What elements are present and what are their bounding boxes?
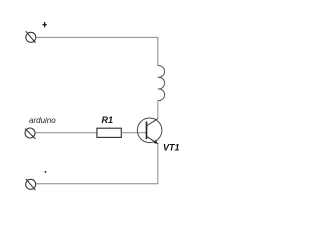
label + [42,22,46,27]
terminal X3 (- supply) [26,179,36,190]
wire top rail [36,37,158,65]
inductor L1 [158,66,165,101]
transistor VT1 base bar [146,122,148,140]
svg-text:VT1: VT1 [163,142,180,152]
wire R1 to base [121,132,146,134]
resistor R1 [97,128,121,137]
transistor VT1 emitter [147,136,159,144]
transistor VT1 collector [147,119,158,126]
svg-text:R1: R1 [102,115,114,125]
wire emitter to bottom rail [36,144,158,184]
transistor VT1 circle [137,118,162,143]
transistor VT1 emitter arrow [154,140,158,144]
svg-text:arduino: arduino [29,116,56,125]
wire arduino to R1 [35,132,97,134]
wire coil to collector [157,101,159,119]
label - (dot) [45,171,47,173]
terminal X2 (arduino input) [25,128,35,139]
terminal X1 (+ supply) [26,31,36,43]
